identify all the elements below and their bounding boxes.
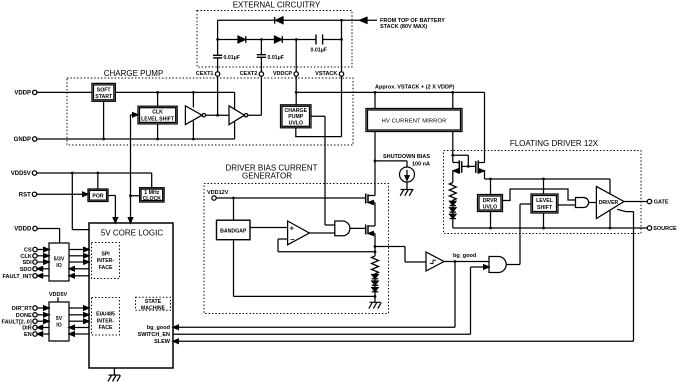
wire soft start to GNDP: [103, 101, 105, 139]
wire feedback to op-amp minus: [278, 239, 375, 252]
pin DIR_RT: [12, 306, 37, 312]
svg-text:DRVR: DRVR: [483, 198, 498, 204]
wire slew from driver: [178, 209, 633, 341]
pin VDDP: [14, 90, 37, 96]
svg-text:SOFT: SOFT: [97, 87, 112, 93]
svg-text:HV CURRENT MIRROR: HV CURRENT MIRROR: [382, 118, 447, 124]
svg-text:SDI: SDI: [23, 260, 33, 266]
wire clock output riser and into core logic: [128, 115, 139, 223]
pin VSTACK: [315, 71, 344, 77]
svg-text:VDDP: VDDP: [14, 91, 31, 97]
1 MHz clock block: [140, 188, 165, 202]
svg-text:GNDP: GNDP: [14, 137, 31, 143]
svg-text:FAULT_INT: FAULT_INT: [2, 274, 32, 280]
wire uvlo bottom to VSTACK: [296, 76, 342, 136]
drvr uvlo block: [478, 195, 503, 212]
pin FAULT_INT: [2, 274, 37, 280]
svg-text:STACK (80V MAX): STACK (80V MAX): [380, 24, 427, 30]
pin FAULT[2..0]: [2, 319, 38, 325]
pin VDDCP: [273, 71, 299, 77]
svg-text:EXTERNAL CIRCUITRY: EXTERNAL CIRCUITRY: [233, 1, 321, 10]
svg-text:IO: IO: [56, 263, 61, 269]
svg-text:bg_good: bg_good: [453, 253, 476, 259]
svg-text:IO: IO: [56, 323, 61, 329]
wire drvr uvlo taps: [490, 179, 492, 228]
pin VDD12V: [207, 190, 229, 200]
svg-text:0.01μF: 0.01μF: [268, 55, 284, 61]
svg-text:CHARGE: CHARGE: [285, 108, 308, 114]
wire VDD12V to M1 gate: [216, 197, 366, 199]
pin VDD5V: [11, 171, 37, 177]
wire bg_good down to core logic: [178, 262, 455, 328]
svg-text:5V CORE LOGIC: 5V CORE LOGIC: [101, 229, 163, 238]
pin DIR: [22, 325, 37, 331]
wire ground stub biasgen: [374, 296, 376, 302]
svg-text:PUMP: PUMP: [288, 114, 304, 120]
wire node to schmitt buffer: [375, 247, 426, 263]
svg-text:GATE: GATE: [654, 200, 669, 206]
svg-text:SDO: SDO: [20, 267, 33, 273]
arrow into clk level shift: [133, 113, 138, 117]
wire GNDP rail: [37, 122, 235, 139]
pin CEXT1: [196, 71, 220, 77]
wire mirror output left down to M1: [374, 132, 376, 196]
pin RST: [19, 192, 37, 198]
wire FAULT[2..0] row: [37, 319, 89, 323]
pin CEXT2: [240, 71, 264, 77]
charge pump dashed box: [67, 78, 353, 145]
wire EN row: [37, 332, 89, 336]
svg-text:100 nA: 100 nA: [412, 162, 430, 168]
wire DIR row: [37, 325, 89, 329]
wire POR output into core logic: [108, 196, 118, 224]
state machine dashed box: [136, 297, 171, 311]
svg-text:POR: POR: [92, 194, 103, 200]
wire AND3 to driver: [589, 202, 597, 204]
wire mirror top taps: [375, 92, 453, 108]
wire bandgap top tap: [233, 198, 235, 220]
svg-text:−: −: [290, 235, 295, 244]
soft start block: [92, 83, 115, 101]
svg-text:VDD12V: VDD12V: [207, 190, 229, 196]
svg-text:STATE: STATE: [145, 299, 162, 305]
arrow slew into core logic: [173, 339, 178, 343]
capacitor C3 0.01uF: [311, 35, 327, 54]
svg-text:0.01μF: 0.01μF: [311, 48, 327, 54]
svg-text:VSTACK: VSTACK: [315, 71, 337, 77]
pin GNDP: [14, 137, 37, 143]
transistor M1: [366, 194, 375, 205]
wire driver output to GATE: [624, 201, 647, 203]
io block 5V: [49, 302, 69, 341]
wire VDDCP pin to uvlo: [295, 76, 297, 105]
spi interface dashed box: [92, 243, 120, 279]
wire SDO row: [37, 267, 89, 271]
diode stack D8: [450, 208, 456, 215]
wire M4 drain to internal rail: [485, 171, 611, 179]
pin VDDD: [14, 226, 37, 232]
transistor M3: [453, 160, 469, 173]
capacitor C2 0.01uF: [257, 55, 284, 61]
svg-text:GENERATOR: GENERATOR: [242, 171, 292, 180]
and gate U3: [576, 198, 589, 208]
svg-text:FAULT[2..0]: FAULT[2..0]: [2, 319, 32, 325]
por block: [88, 189, 108, 202]
ground core logic: [108, 375, 121, 381]
wire inv2 output to CEXT2: [248, 76, 262, 115]
wire top rail: [218, 19, 342, 21]
wire level shift taps: [543, 179, 545, 228]
svg-text:0.01μF: 0.01μF: [224, 55, 240, 61]
wire M1 source to M2 drain: [374, 203, 376, 227]
external circuitry dashed box: [197, 11, 352, 68]
svg-text:SWITCH_EN: SWITCH_EN: [138, 332, 170, 338]
pin GATE: [647, 199, 669, 205]
driver amplifier: [596, 186, 624, 218]
wire schmitt output to AND2: [444, 261, 489, 263]
wire SDI row: [37, 260, 89, 264]
svg-text:CEXT2: CEXT2: [240, 71, 258, 77]
svg-text:VDD5V: VDD5V: [49, 292, 68, 298]
diode D2: [238, 36, 246, 43]
svg-text:+: +: [290, 223, 295, 232]
level shift block: [531, 194, 558, 213]
wire FAULT_INT row: [37, 274, 89, 278]
svg-text:SPI: SPI: [101, 251, 110, 257]
svg-text:VDDCP: VDDCP: [273, 71, 293, 77]
wire op-amp output to AND: [309, 232, 335, 233]
wire clock input riser: [131, 114, 133, 116]
svg-text:INTER-: INTER-: [97, 258, 115, 264]
svg-text:FROM TOP OF BATTERY: FROM TOP OF BATTERY: [380, 18, 445, 24]
svg-text:DONE: DONE: [16, 313, 32, 319]
inverter INV2: [229, 106, 248, 125]
hv current mirror block: [366, 109, 462, 132]
io block 5/3V: [49, 243, 69, 281]
svg-text:UVLO: UVLO: [289, 120, 303, 126]
wire M3 drain to resistor: [452, 171, 454, 183]
svg-text:5V: 5V: [56, 316, 63, 322]
capacitor C1 0.01uF: [213, 55, 240, 61]
wire source rail: [453, 227, 648, 229]
svg-text:CLK: CLK: [20, 254, 31, 260]
wire bandgap bottom rail: [234, 240, 376, 297]
arrow switch_en into AND2: [484, 265, 489, 269]
pin SOURCE: [647, 226, 677, 232]
and gate U2: [489, 257, 506, 273]
wire from battery stack with arrow: [342, 17, 378, 23]
wire VDD5V to core logic: [72, 173, 89, 230]
pin CS: [24, 247, 37, 253]
core logic box: [89, 223, 173, 368]
svg-text:EN: EN: [24, 332, 32, 338]
wire switch_en from core logic: [173, 267, 484, 334]
svg-text:VDD5V: VDD5V: [11, 171, 31, 177]
svg-text:bg_good: bg_good: [147, 325, 170, 331]
svg-text:FACE: FACE: [99, 325, 113, 331]
wire drvr uvlo output to AND3: [503, 189, 576, 201]
current source I1: [400, 167, 415, 182]
wire VDD5V rail: [37, 173, 152, 188]
inverter INV1: [185, 106, 205, 125]
diode stack D4: [372, 275, 378, 282]
svg-text:DIR: DIR: [22, 326, 32, 332]
svg-text:Approx. VSTACK + (2 X VDDP): Approx. VSTACK + (2 X VDDP): [375, 84, 455, 90]
wire VDDP rail: [37, 92, 235, 108]
wire mirror node to gates: [453, 155, 469, 166]
wire VDDCP rail to floating driver: [296, 92, 484, 162]
svg-text:5/3V: 5/3V: [54, 256, 65, 262]
diode stack D6: [372, 288, 378, 297]
transistor M4: [468, 160, 484, 173]
wire VDD5V to POR: [97, 173, 99, 189]
wire driver power taps: [609, 179, 611, 228]
schmitt buffer B1: [426, 252, 444, 271]
svg-text:CS: CS: [24, 248, 32, 254]
wire CLK row: [37, 254, 89, 258]
pin DONE: [16, 313, 37, 319]
svg-text:RST: RST: [19, 192, 31, 198]
svg-text:INTER-: INTER-: [97, 318, 115, 324]
diode stack D9: [450, 214, 456, 228]
diode D1: [275, 17, 283, 24]
svg-text:FACE: FACE: [99, 265, 113, 271]
transistor M2: [366, 225, 375, 236]
svg-text:BANDGAP: BANDGAP: [220, 228, 247, 234]
wire inv1 power taps: [192, 92, 194, 139]
pin SDO: [20, 267, 37, 273]
wire DONE row: [37, 313, 89, 317]
wire current source to ground: [406, 182, 408, 190]
clk level shift block: [138, 106, 177, 124]
svg-text:VDDD: VDDD: [14, 227, 32, 233]
wire core ground stub: [113, 368, 115, 375]
wire CEXT1 to inv1 output: [217, 76, 219, 115]
svg-text:SHIFT: SHIFT: [537, 205, 553, 211]
eia485 interface dashed box: [92, 298, 120, 336]
svg-text:CLOCK: CLOCK: [143, 196, 162, 202]
svg-text:CEXT1: CEXT1: [196, 71, 214, 77]
svg-text:LEVEL: LEVEL: [536, 198, 554, 204]
wire inv1 to inv2: [206, 114, 229, 116]
wire bandgap to op-amp: [250, 227, 288, 229]
wire AND2 output to level shift: [506, 204, 531, 265]
svg-text:UVLO: UVLO: [483, 204, 497, 210]
svg-text:SLEW: SLEW: [154, 339, 171, 345]
label SHUTDOWN BIAS 100 nA: [383, 154, 430, 168]
ground biasgen: [369, 302, 382, 308]
wire CEXT1 vertical: [217, 20, 219, 72]
svg-text:DIR_RT: DIR_RT: [12, 306, 33, 312]
svg-text:CHARGE PUMP: CHARGE PUMP: [104, 69, 164, 78]
diode stack D7: [450, 201, 456, 208]
svg-text:START: START: [95, 94, 113, 100]
resistor R2: [449, 183, 456, 202]
wire shutdown branch: [375, 161, 407, 167]
wire RST to POR with arrow: [37, 192, 88, 196]
svg-text:SHUTDOWN BIAS: SHUTDOWN BIAS: [383, 154, 430, 160]
wire VDDD to io block: [37, 229, 59, 244]
pin CLK: [20, 254, 37, 260]
wire DIR_RT row: [37, 306, 89, 310]
diode D3: [275, 36, 283, 43]
charge pump uvlo block: [281, 105, 312, 128]
wire VSTACK vertical upper: [341, 20, 343, 72]
svg-text:FLOATING DRIVER 12X: FLOATING DRIVER 12X: [510, 139, 599, 148]
pin SDI: [23, 260, 38, 266]
svg-text:MACHINE: MACHINE: [141, 305, 166, 311]
wire CEXT2 vertical: [260, 40, 262, 72]
diode stack D5: [372, 281, 378, 288]
svg-text:DRIVER: DRIVER: [599, 200, 619, 206]
wire M2 source to resistor node: [374, 234, 376, 257]
and gate U1: [335, 221, 350, 236]
title DRIVER BIAS CURRENT GENERATOR: [225, 163, 317, 180]
svg-text:LEVEL SHIFT: LEVEL SHIFT: [141, 117, 175, 123]
wire level shift output to AND3: [558, 204, 576, 206]
wire uvlo output down to bias AND: [311, 116, 335, 225]
wire and output to M2 gate: [350, 227, 366, 230]
resistor R1: [372, 256, 379, 275]
wire second rail: [218, 39, 342, 41]
op-amp A1: [288, 221, 310, 245]
wire CS row: [37, 247, 89, 251]
wire vdd5v stub to 5V io: [57, 297, 59, 302]
driver bias current generator dashed box: [204, 184, 389, 314]
svg-text:EIA/485: EIA/485: [96, 312, 115, 318]
svg-text:CLK: CLK: [152, 110, 163, 116]
svg-text:SOURCE: SOURCE: [653, 226, 677, 232]
bandgap block: [217, 220, 251, 240]
wire clk block power taps: [157, 92, 159, 139]
wire VDDCP vertical upper: [295, 40, 297, 72]
arrow bg_good into core logic: [173, 325, 178, 329]
wire mirror output right down to floating mirror: [452, 132, 454, 156]
floating driver dashed box: [444, 151, 642, 234]
ground shutdown: [400, 190, 413, 196]
pin EN: [24, 332, 37, 338]
label FROM TOP OF BATTERY STACK (80V MAX): [380, 18, 445, 30]
